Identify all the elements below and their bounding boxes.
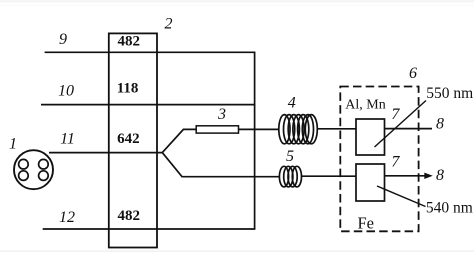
wire fork upper diagonal xyxy=(162,129,196,152)
coil 4 xyxy=(279,115,318,144)
svg-text:Al, Mn: Al, Mn xyxy=(345,97,385,112)
wire lower output 8 with arrow xyxy=(385,175,426,177)
svg-text:540 nm: 540 nm xyxy=(426,199,473,216)
svg-text:482: 482 xyxy=(117,208,140,224)
svg-text:11: 11 xyxy=(60,131,75,148)
wire line 10 xyxy=(41,104,255,106)
svg-text:1: 1 xyxy=(9,135,17,152)
svg-text:550 nm: 550 nm xyxy=(426,85,473,102)
svg-text:Fe: Fe xyxy=(358,213,375,232)
fiber core top-right xyxy=(39,159,49,169)
coil 5 xyxy=(279,166,301,187)
svg-text:6: 6 xyxy=(409,65,417,82)
svg-text:4: 4 xyxy=(288,95,296,112)
pointer line 550 nm xyxy=(375,101,427,148)
wire right edge of coupler region xyxy=(254,52,256,229)
wire line 12 xyxy=(43,228,256,230)
wire upper output 8 xyxy=(385,128,433,130)
svg-text:8: 8 xyxy=(436,167,444,184)
fiber core bottom-right xyxy=(39,171,49,181)
pointer line 540 nm xyxy=(377,186,426,207)
fiber bundle 1 outer circle xyxy=(14,150,53,189)
svg-text:482: 482 xyxy=(118,33,141,49)
svg-text:5: 5 xyxy=(286,148,294,165)
svg-text:12: 12 xyxy=(59,209,75,226)
detector box lower (Fe) xyxy=(356,164,385,201)
svg-text:7: 7 xyxy=(391,154,400,171)
svg-text:8: 8 xyxy=(436,116,444,133)
svg-text:10: 10 xyxy=(58,82,74,99)
wire fork lower diagonal xyxy=(162,153,279,177)
wire box3 to coil4 xyxy=(239,128,280,130)
svg-text:118: 118 xyxy=(117,81,139,97)
fiber core top-left xyxy=(19,159,29,169)
wire line 9 xyxy=(45,51,256,53)
dashed enclosure 6 xyxy=(340,87,418,232)
wire line 11 xyxy=(49,152,163,154)
detector box upper (Al, Mn) xyxy=(356,119,385,155)
svg-text:2: 2 xyxy=(165,16,173,33)
block 2 rectangle xyxy=(109,33,157,247)
wire coil4 to detector box xyxy=(317,128,356,130)
svg-text:642: 642 xyxy=(117,131,140,147)
fiber core bottom-left xyxy=(19,171,29,181)
arrowhead lower output xyxy=(424,173,433,179)
svg-text:3: 3 xyxy=(217,106,226,123)
svg-text:7: 7 xyxy=(391,106,400,123)
filter box 3 xyxy=(196,126,238,133)
wire coil5 to lower detector box xyxy=(301,175,356,177)
svg-text:9: 9 xyxy=(59,31,67,48)
